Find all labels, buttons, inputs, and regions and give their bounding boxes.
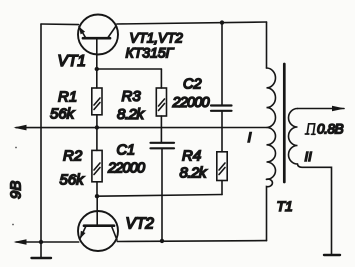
wire VT2 collector rail [117, 240, 266, 243]
resistor R2 [92, 128, 102, 197]
resistor R4 [217, 152, 227, 195]
label 0.8V output [317, 122, 344, 137]
resistor R1 [92, 69, 102, 128]
wire VT1 base to R3 [97, 68, 162, 70]
speck [15, 147, 17, 149]
svg-text:VT1: VT1 [58, 53, 86, 70]
capacitor C1 [151, 143, 175, 241]
wire top rail right segment [117, 22, 267, 24]
label 22000 of C2 [172, 95, 210, 111]
label VT1,VT2 type note [130, 31, 184, 46]
label T1 [277, 198, 293, 214]
svg-text:22000: 22000 [107, 161, 145, 177]
svg-text:0.8В: 0.8В [317, 122, 344, 137]
capacitor C2 [211, 23, 232, 152]
resistor R3 [156, 69, 166, 143]
svg-text:9В: 9В [8, 181, 25, 199]
svg-text:C2: C2 [183, 76, 202, 92]
label KT315G type note [126, 45, 175, 61]
node R1 R2 mid-rail junction [95, 125, 99, 129]
label R1 [58, 89, 77, 106]
svg-text:I: I [248, 129, 252, 145]
wire output with right arrow [298, 106, 346, 112]
svg-text:8.2k: 8.2k [180, 165, 208, 182]
wire R4 to VT2 base [97, 195, 222, 197]
transistor VT2 [78, 196, 118, 251]
label VT2 [126, 216, 155, 233]
transistor VT1 [78, 15, 118, 70]
node C1 bottom junction [160, 239, 164, 243]
ground chassis bar output [324, 254, 340, 256]
svg-text:56k: 56k [60, 172, 86, 189]
label C1 [117, 143, 136, 159]
svg-text:8.2k: 8.2k [117, 106, 145, 123]
transformer T1 winding II [289, 109, 298, 165]
label VT1 [58, 53, 86, 70]
svg-text:Т1: Т1 [277, 198, 293, 214]
pulse symbol output level [305, 124, 315, 135]
node VT2 base junction [95, 194, 99, 198]
label 9V supply [8, 181, 25, 199]
node C2 top junction [220, 20, 224, 24]
label R4 [182, 148, 201, 165]
wire left rail [40, 24, 42, 258]
label C2 [183, 76, 202, 92]
svg-text:VT1,VT2: VT1,VT2 [130, 31, 184, 46]
wire winding I top lead [266, 22, 268, 68]
ground chassis bar [32, 257, 52, 259]
speck [12, 224, 14, 226]
wire bottom emitter line with left arrow [14, 239, 79, 245]
node VT1 base junction [95, 67, 99, 71]
svg-text:C1: C1 [117, 143, 136, 159]
label 8.2k of R3 [117, 106, 145, 123]
label 22000 of C1 [107, 161, 145, 177]
wire mid supply rail with left arrow [14, 125, 267, 131]
wire winding II bottom lead [298, 164, 332, 254]
svg-text:56k: 56k [50, 106, 76, 123]
label 8.2k of R4 [180, 165, 208, 182]
label 56k of R2 [60, 172, 86, 189]
wire top rail left segment [41, 23, 79, 26]
label I winding [248, 129, 252, 145]
label 56k of R1 [50, 106, 76, 123]
label II winding [305, 149, 313, 164]
svg-text:КТ315Г: КТ315Г [126, 45, 175, 61]
svg-text:R2: R2 [63, 148, 83, 165]
node emitter rail junction [39, 240, 43, 244]
svg-text:VT2: VT2 [126, 216, 155, 233]
wire winding I bottom lead [267, 179, 273, 241]
transformer T1 winding I [267, 68, 276, 179]
label R2 [63, 148, 83, 165]
svg-text:R1: R1 [58, 89, 77, 106]
svg-text:R4: R4 [182, 148, 201, 165]
svg-text:R3: R3 [122, 88, 142, 105]
svg-text:22000: 22000 [172, 95, 210, 111]
label R3 [122, 88, 142, 105]
svg-text:II: II [305, 149, 313, 164]
transformer T1 core [283, 64, 286, 182]
